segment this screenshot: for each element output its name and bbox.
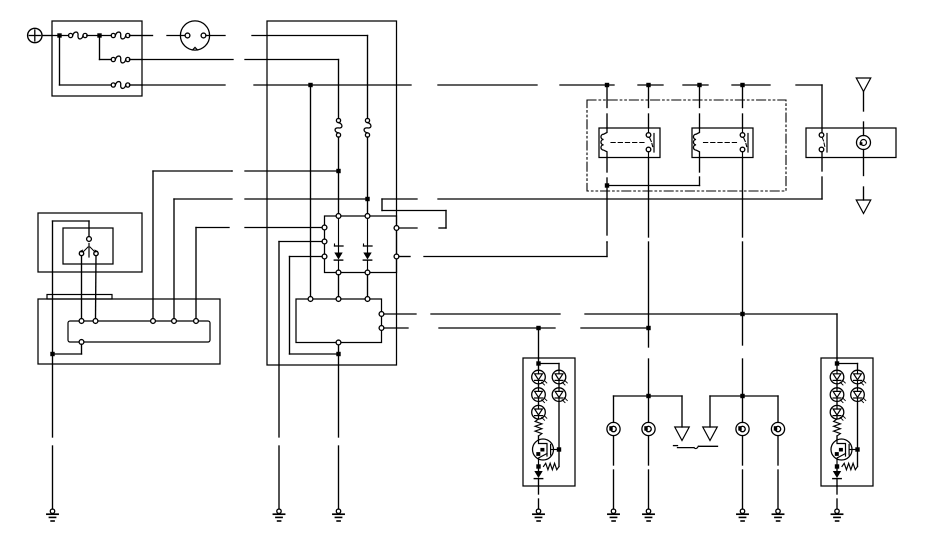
right rear lamp LED1 bbox=[830, 370, 845, 385]
wire y314 seg2 bbox=[431, 313, 560, 315]
fuse F2 (row1 right) bbox=[111, 32, 130, 39]
wire tap171 to cluster bbox=[153, 171, 339, 319]
wire relay1 switch down bbox=[648, 158, 650, 397]
fuse F3 (row2) bbox=[111, 56, 130, 63]
node bulb bus tap bbox=[646, 394, 650, 398]
wire bus B85 seg8 to lighting switch bbox=[796, 85, 822, 133]
ground bulb4 bbox=[772, 509, 783, 521]
wire relay2 switch top bbox=[742, 85, 744, 128]
wire bulb4 ground run bbox=[777, 436, 779, 509]
fuse F1 (main) bbox=[69, 32, 88, 39]
node gauge ground junction bbox=[50, 352, 54, 356]
wire long feed y199 bbox=[382, 198, 822, 200]
left rear lamp LED2 bbox=[532, 384, 547, 403]
lighting switch box bbox=[806, 128, 896, 158]
ground bulb3 bbox=[737, 509, 748, 521]
unit pin bottom1 bbox=[336, 270, 341, 275]
ignition switch pin 1 bbox=[185, 33, 190, 38]
turn signal hazard unit box bbox=[325, 216, 397, 273]
fuse F4 (row3) bbox=[111, 82, 130, 89]
wire bus B85 seg1 bbox=[142, 84, 225, 86]
wire relay1 switch top bbox=[648, 85, 650, 128]
wire F1 to junction B bbox=[87, 35, 111, 37]
wire y314 seg3 bbox=[585, 313, 837, 315]
gauge pin 4 bbox=[172, 319, 177, 324]
wire left bulb bus bbox=[614, 395, 683, 397]
node battery feed junction A bbox=[57, 33, 61, 37]
ground bulb1 bbox=[608, 509, 619, 521]
right rear lamp feed junction bbox=[835, 358, 839, 370]
wire F4 out bbox=[130, 84, 143, 86]
wire junction B down to row2 bbox=[100, 36, 112, 60]
wire fuse V2 down bbox=[367, 137, 369, 216]
gauge pin 1 bbox=[79, 319, 84, 324]
right rear lamp LED5 bbox=[851, 384, 866, 403]
left rear lamp LED5 bbox=[552, 384, 567, 403]
bulb 1 (front turn L) bbox=[607, 422, 620, 435]
left rear lamp resistor R2 bbox=[544, 463, 560, 469]
wire bus B85 seg4 bbox=[560, 84, 614, 86]
lighting switch dashes bbox=[822, 138, 825, 147]
unit pin right1 bbox=[394, 226, 399, 231]
left rear lamp ground bbox=[533, 509, 544, 521]
node bus tap x310 bbox=[308, 83, 312, 87]
wire bus B85 seg7 bbox=[732, 84, 770, 86]
diode D2 bbox=[363, 253, 371, 271]
wire D2 to switch box bbox=[367, 275, 369, 297]
ground G3 bbox=[333, 509, 344, 521]
wire bulb3 ground run bbox=[742, 436, 744, 509]
wire bulb3 drop bbox=[742, 396, 744, 422]
unit pin left1 bbox=[322, 225, 327, 230]
node fuse V2 tap bbox=[365, 197, 369, 201]
unit pin right2 bbox=[394, 254, 399, 259]
wire ground G3 run bbox=[338, 345, 340, 509]
left rear lamp LED4 bbox=[552, 370, 567, 385]
switch pin top3 bbox=[365, 297, 370, 302]
bulb 3 (side marker R) bbox=[736, 422, 749, 435]
right rear lamp wire to ground bbox=[836, 486, 838, 509]
wire bulb2 drop bbox=[648, 396, 650, 422]
wire arrow drop L bbox=[681, 396, 683, 427]
lighting switch bar bbox=[826, 134, 828, 153]
left rear lamp resistor R1 bbox=[535, 419, 542, 439]
gauge pin 2 bbox=[93, 319, 98, 324]
wire gauge ground bbox=[53, 344, 82, 354]
right rear lamp wire drain down bbox=[857, 450, 859, 467]
left rear lamp box bbox=[523, 358, 575, 486]
left rear lamp transistor Q1 bbox=[533, 439, 560, 466]
switch pin bottom bbox=[336, 340, 341, 345]
ignition switch SW1 bbox=[180, 21, 209, 50]
under-hood fuse box bbox=[52, 21, 142, 96]
left rear lamp feed junction bbox=[536, 358, 540, 370]
right rear lamp drain node bbox=[855, 447, 859, 451]
combination switch outer housing bbox=[38, 213, 142, 272]
connector arrow R bbox=[703, 427, 718, 441]
wire relay1 coil top bbox=[606, 85, 608, 128]
lighting switch pin bottom bbox=[819, 147, 824, 152]
wire y328 seg2 bbox=[439, 327, 555, 329]
left rear lamp wire LED5 down bbox=[558, 401, 560, 449]
wire relay1 coil down bbox=[606, 158, 608, 243]
wire F2 out bbox=[130, 35, 143, 37]
left rear lamp source node bbox=[536, 464, 540, 468]
separator squiggle bbox=[674, 446, 718, 449]
ground G1 bbox=[47, 509, 58, 521]
right rear lamp resistor R2 bbox=[842, 463, 858, 469]
gauge assembly box bbox=[38, 299, 220, 364]
wire throw R down bbox=[95, 256, 98, 319]
right rear lamp ground bbox=[831, 509, 842, 521]
wire bulb4 drop bbox=[777, 396, 779, 422]
connector arrow top bbox=[856, 78, 871, 92]
switch pin top1 bbox=[308, 297, 313, 302]
switch pin top2 bbox=[336, 297, 341, 302]
node bus tap relay2 coil bbox=[697, 83, 701, 87]
right rear lamp resistor R1 bbox=[834, 419, 841, 439]
wire relay coils link bbox=[607, 158, 700, 186]
wire arrow drop R bbox=[709, 396, 711, 427]
wire antenna bottom bbox=[863, 150, 865, 201]
unit pin left3 bbox=[322, 254, 327, 259]
wire unit left2 bbox=[279, 242, 322, 510]
wire relay2 coil top bbox=[699, 85, 701, 128]
wire tap199 to cluster bbox=[174, 199, 368, 319]
wire hazard feed bbox=[53, 221, 90, 352]
wire jog unit right1 bbox=[382, 199, 446, 228]
wire bulb2 ground run bbox=[648, 436, 650, 509]
wire D1 to switch box bbox=[338, 275, 340, 297]
gauge pin 3 bbox=[151, 319, 156, 324]
node bus tap relay1 switch bbox=[646, 83, 650, 87]
fuse V1 bbox=[335, 118, 342, 137]
wire lighting switch down bbox=[821, 152, 823, 199]
right rear lamp diode bbox=[833, 467, 841, 487]
left rear lamp diode bbox=[534, 467, 542, 487]
wire bulb1 drop bbox=[613, 396, 615, 422]
wire right bulb bus bbox=[710, 395, 778, 397]
hazard switch common pin bbox=[87, 237, 92, 242]
wire bus B85 seg5 bbox=[638, 84, 663, 86]
left rear lamp internal branch bbox=[539, 364, 560, 371]
left rear lamp LED1 bbox=[532, 370, 547, 385]
turn signal switch box bbox=[296, 299, 382, 343]
left rear lamp wire drain down bbox=[558, 450, 560, 467]
relay R1 (turn signal relay) bbox=[599, 128, 660, 158]
bulb 4 (front turn R) bbox=[771, 422, 784, 435]
node fuse V1 tap bbox=[336, 169, 340, 173]
wire y328 seg3 bbox=[581, 327, 649, 329]
hazard switch lever bbox=[84, 244, 95, 258]
connector arrow bottom bbox=[856, 200, 871, 214]
bulb 2 (side marker L) bbox=[642, 422, 655, 435]
node y328 end at relay1 switch wire bbox=[646, 326, 650, 330]
wire fusebox to ignition switch bbox=[142, 35, 185, 37]
left rear lamp drain node bbox=[557, 447, 561, 451]
connector arrow L bbox=[675, 427, 690, 441]
switch pin right2 bbox=[379, 326, 384, 331]
ground G2 bbox=[273, 509, 284, 521]
unit pin top2 bbox=[365, 214, 370, 219]
wire junction A down to row3 bbox=[60, 36, 112, 86]
right rear lamp wire LED5 down bbox=[857, 401, 859, 449]
gauge connector bar bbox=[47, 295, 112, 300]
wire bus B85 seg3 bbox=[438, 84, 537, 86]
battery B+ terminal bbox=[28, 28, 42, 42]
wire bus B85 seg6 bbox=[683, 84, 708, 86]
dash fuse box (large outline) bbox=[267, 21, 397, 365]
hazard switch inner box bbox=[63, 228, 113, 264]
right rear lamp LED4 bbox=[851, 370, 866, 385]
node junction under switch box bbox=[336, 352, 340, 356]
wire x310 down bbox=[310, 85, 312, 297]
relay assembly dashed enclosure bbox=[587, 100, 786, 191]
wire antenna top bbox=[863, 92, 865, 136]
node relay coil junction bbox=[605, 183, 609, 187]
gauge ground pin bbox=[79, 340, 84, 345]
wire unit left3 bbox=[290, 257, 339, 355]
noise condenser bbox=[857, 136, 871, 150]
switch pin right1 bbox=[379, 312, 384, 317]
right rear lamp internal branch bbox=[837, 364, 858, 371]
gauge pin 5 bbox=[194, 319, 199, 324]
wire F3 out bbox=[130, 59, 143, 61]
right rear lamp source node bbox=[835, 464, 839, 468]
node junction B bbox=[97, 33, 101, 37]
wire relay2 switch down bbox=[742, 158, 744, 397]
hazard switch throw pin R bbox=[94, 249, 99, 255]
wire bulb1 ground run bbox=[613, 436, 615, 509]
wire pin228 to cluster bbox=[196, 228, 325, 319]
node y328 tap left lamp bbox=[536, 326, 540, 330]
right rear lamp LED2 bbox=[830, 384, 845, 403]
wire y314 seg1 bbox=[384, 313, 416, 315]
unit pin bottom2 bbox=[365, 270, 370, 275]
fuse V2 bbox=[364, 118, 371, 137]
wire y314 corner down to right lamp bbox=[836, 314, 838, 358]
left rear lamp wire to ground bbox=[538, 486, 540, 509]
node y314 tap relay2 switch bbox=[740, 312, 744, 316]
ground bulb2 bbox=[643, 509, 654, 521]
ignition switch pin 2 bbox=[201, 33, 206, 38]
node bulb bus tap right bbox=[740, 394, 744, 398]
wire ignition out bbox=[206, 35, 368, 37]
right rear lamp box bbox=[821, 358, 873, 486]
wire unit right2 to relays bbox=[399, 242, 607, 257]
diode D2 anode bar bbox=[364, 219, 373, 253]
hazard switch throw pin L bbox=[79, 249, 84, 255]
node bus tap relay1 coil bbox=[605, 83, 609, 87]
relay R2 (hazard relay) bbox=[692, 128, 753, 158]
unit pin left2 bbox=[322, 239, 327, 244]
node bus tap relay2 switch bbox=[740, 83, 744, 87]
wire bus B85 seg2 bbox=[254, 84, 411, 86]
lighting switch pin top bbox=[819, 133, 824, 138]
wire throw L down bbox=[81, 256, 83, 319]
wire feed bbox=[52, 35, 69, 37]
diode D1 anode bar bbox=[335, 219, 344, 253]
left rear lamp LED3 bbox=[532, 401, 547, 420]
right rear lamp transistor Q1 bbox=[831, 439, 858, 466]
wire fuse V1 down bbox=[338, 137, 340, 216]
wire left lamp feed down bbox=[538, 328, 540, 358]
diode D1 bbox=[334, 253, 342, 271]
right rear lamp LED3 bbox=[830, 401, 845, 420]
wire battery to fuse box bbox=[42, 35, 52, 37]
wire row2 to fuse V1 bbox=[142, 60, 339, 119]
gauge inner connector bbox=[68, 321, 210, 342]
wire ignition down to fuse V2 bbox=[367, 36, 369, 119]
wire y328 seg1 bbox=[384, 327, 408, 329]
unit pin top1 bbox=[336, 214, 341, 219]
wire ground G1 run bbox=[52, 354, 54, 509]
